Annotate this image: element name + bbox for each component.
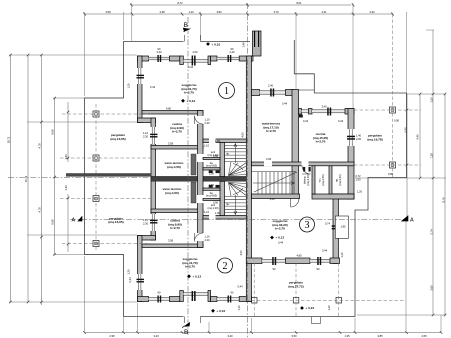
room label vano tecnico unit2 [163, 187, 182, 195]
pergola post bottom 1 [252, 298, 258, 304]
pergola axis left vertical [95, 104, 97, 250]
terrace line top right of door [201, 41, 251, 43]
svg-text:h=2,70: h=2,70 [184, 91, 194, 95]
svg-text:4,80: 4,80 [296, 254, 302, 258]
svg-text:2,40: 2,40 [268, 84, 274, 88]
svg-text:h=2,70: h=2,70 [185, 265, 195, 269]
svg-text:2,65: 2,65 [421, 334, 427, 338]
svg-text:1,20: 1,20 [237, 305, 241, 311]
svg-text:4,80: 4,80 [166, 107, 172, 111]
svg-text:(mq.2,50): (mq.2,50) [321, 174, 325, 185]
unit1 top wall corner right [239, 56, 253, 61]
unit1 top wall segment [169, 56, 179, 61]
level mark unit3 [270, 236, 284, 240]
svg-text:+ 0,10: + 0,10 [306, 306, 315, 310]
level mark bottom entry [211, 309, 225, 313]
svg-text:18,72: 18,72 [6, 136, 10, 143]
svg-text:4,78: 4,78 [37, 143, 41, 149]
window mark right wall [347, 136, 355, 140]
unit1 top wall corner left [138, 56, 149, 61]
bump right wall [198, 111, 204, 248]
bump left door2 [151, 214, 157, 231]
pergola axis left h1 [62, 113, 151, 115]
svg-text:2,00: 2,00 [192, 50, 198, 54]
left extension horizontals [9, 54, 137, 56]
dim stack door bump2 [143, 218, 149, 225]
window dim 90 top1 [156, 47, 162, 54]
door marks unit1 block [209, 171, 220, 174]
stair unit2 treads [225, 197, 247, 213]
left dim line 2 [27, 55, 29, 302]
unit1 top wall segment2 [211, 56, 217, 61]
pergola post left 3 [93, 196, 99, 202]
stair block bottom wall [203, 215, 246, 220]
cucina3 top wall left [299, 109, 302, 115]
svg-text:h=2,70: h=2,70 [172, 130, 182, 134]
right dim line x420 [419, 94, 421, 178]
room label vano tecnico unit1 [165, 161, 184, 169]
svg-text:6,08: 6,08 [51, 219, 55, 225]
svg-text:h=2,70: h=2,70 [170, 226, 180, 230]
svg-text:B: B [184, 329, 188, 336]
bump left wall [151, 118, 156, 240]
svg-text:3,50: 3,50 [291, 334, 297, 338]
door marks unit2 block [209, 185, 220, 188]
svg-text:0,90: 0,90 [213, 200, 219, 204]
bottom terrace step notch [312, 317, 321, 324]
autorimessa right wall [292, 90, 299, 196]
bath partition unit2b [203, 188, 220, 190]
svg-text:1,10: 1,10 [204, 210, 210, 214]
boiler vano1 [191, 154, 196, 175]
svg-text:0,44: 0,44 [303, 119, 309, 123]
svg-text:6,08: 6,08 [51, 129, 55, 135]
svg-text:2,95: 2,95 [109, 334, 115, 338]
top sub dimension line [84, 13, 393, 15]
pergola axis bottom v2 [295, 263, 297, 317]
chimney stack top [253, 31, 262, 56]
right extension horizontals [406, 93, 446, 95]
unit3 step wall [333, 194, 354, 199]
svg-text:+ 0,10: + 0,10 [217, 309, 226, 313]
svg-text:0,90: 0,90 [394, 119, 400, 123]
stair inner wall unit1 [220, 143, 225, 177]
unit1 step wall [138, 118, 156, 123]
svg-text:1,10: 1,10 [204, 144, 210, 148]
cucina1 top wall [142, 111, 203, 115]
unit circle 2 [218, 258, 233, 273]
pergola axis right h2 [354, 164, 421, 166]
soggiorno3 bottom wall seg1 [246, 258, 262, 264]
svg-text:rip.: rip. [226, 152, 230, 156]
unit2 left wall window [137, 274, 143, 290]
svg-text:(mq.13,65): (mq.13,65) [108, 220, 123, 224]
svg-text:1,40: 1,40 [64, 154, 68, 160]
unit1 left wall upper [138, 56, 143, 123]
svg-text:0,90: 0,90 [213, 154, 219, 158]
top dim ticks row2 [83, 13, 394, 16]
level mark unit1 [181, 99, 195, 103]
pergola axis left h2 [60, 157, 151, 159]
partition vano2/cucina2 [151, 209, 203, 213]
svg-text:(mq.4,10): (mq.4,10) [306, 174, 310, 185]
door mark bump1 [150, 134, 158, 138]
right dim line x445 [444, 94, 446, 315]
svg-text:1,35: 1,35 [344, 334, 350, 338]
svg-text:0,44: 0,44 [128, 277, 132, 283]
svg-text:2,30: 2,30 [143, 134, 149, 138]
room label soggiorno unit1 [181, 83, 196, 95]
stair unit3 cut line [254, 172, 297, 192]
svg-text:4,78: 4,78 [37, 207, 41, 213]
svg-text:B: B [184, 22, 188, 29]
svg-text:4,50: 4,50 [239, 250, 243, 256]
right dim line x407 [406, 94, 408, 218]
svg-text:1,20: 1,20 [127, 269, 131, 275]
svg-text:A: A [410, 217, 414, 223]
section letter B bottom [182, 322, 190, 336]
right dim ticks [406, 93, 447, 317]
top overall dimension line [131, 4, 351, 6]
autorimessa top wall right [286, 90, 295, 96]
unit1 top wall window1 [149, 57, 170, 60]
left dim ticks [9, 54, 69, 304]
dim stack right wall window [356, 134, 362, 142]
svg-text:1,40: 1,40 [188, 10, 194, 14]
svg-text:1,90: 1,90 [215, 139, 221, 143]
garage door [260, 91, 286, 94]
svg-text:1,50: 1,50 [209, 172, 215, 176]
soggiorno3 right wall [333, 194, 338, 264]
svg-text:3,36: 3,36 [266, 157, 272, 161]
unit2 bottom wall segment2 [211, 297, 217, 302]
fireplace bump [335, 216, 348, 238]
unit2 bottom wall window2 [217, 298, 239, 301]
room label cucina unit3 [313, 132, 328, 144]
LAYER: stairs [225, 144, 298, 215]
soggiorno3 bottom window2 [310, 259, 330, 262]
right dim line x433 [432, 30, 434, 315]
svg-text:0,44: 0,44 [282, 101, 288, 105]
svg-text:1,10: 1,10 [205, 118, 211, 122]
cucina2 bottom wall [142, 244, 203, 248]
svg-text:15,72: 15,72 [24, 175, 28, 182]
left dim line 4 [54, 98, 56, 255]
cucina3 top wall right [345, 109, 354, 115]
garden boundary wall between pergolas [66, 173, 151, 176]
stair unit3 treads [258, 172, 294, 194]
svg-text:0,44: 0,44 [188, 65, 194, 69]
svg-text:1,40: 1,40 [356, 134, 362, 138]
window mark bottom2 [228, 296, 232, 303]
pergola post right 1 [390, 107, 396, 113]
svg-text:2,20: 2,20 [205, 121, 211, 125]
level mark pergola bottom [300, 306, 314, 310]
section line B-B vertical [187, 17, 189, 335]
svg-text:+ 0,12: + 0,12 [193, 275, 202, 279]
pergola axis bottom v3 [338, 263, 340, 317]
stair unit3 axis arrow [253, 182, 295, 185]
door mark bump2 [150, 220, 158, 224]
bottom dim line [85, 332, 442, 334]
svg-text:2: 2 [223, 261, 228, 272]
left dim line 5a [67, 102, 69, 162]
LAYER: walls [66, 31, 355, 303]
small room partition B [303, 166, 332, 194]
pergola post left 2 [93, 155, 99, 161]
terrace door stubs top [185, 35, 201, 42]
svg-text:1,50: 1,50 [356, 177, 362, 181]
svg-text:0,44: 0,44 [338, 119, 344, 123]
svg-text:h=2,70: h=2,70 [316, 140, 326, 144]
door arc cucina2 [195, 233, 204, 242]
bump left door1 [151, 127, 157, 144]
svg-text:3,58: 3,58 [168, 142, 174, 146]
stair unit3 rail line [252, 171, 297, 173]
bath partition unit1 [203, 158, 220, 160]
unit2 bottom bay window [183, 293, 208, 296]
unit3 right wall upper [348, 109, 354, 200]
unit2 left wall lower [138, 236, 143, 302]
window dim 90 top2 [229, 47, 235, 54]
window dim sog3 b2 [317, 267, 320, 271]
tiny dims cucina1 door [205, 118, 211, 125]
unit2 bottom wall window1 [149, 298, 170, 301]
svg-text:4,60: 4,60 [241, 132, 245, 138]
soggiorno3 right window [332, 225, 339, 229]
level mark top entry [206, 42, 220, 46]
bath partition unit1b [203, 168, 220, 170]
svg-text:(mq.27,72): (mq.27,72) [288, 285, 303, 289]
pergola axis bottom v1 [253, 263, 255, 317]
svg-text:3,20: 3,20 [227, 334, 233, 338]
right terrace outline [294, 40, 406, 317]
small labels bath unit1 [206, 150, 219, 176]
svg-text:0,44: 0,44 [278, 241, 284, 245]
svg-text:(mq.4,60): (mq.4,60) [206, 194, 217, 198]
svg-text:(mq.4,50): (mq.4,50) [165, 191, 179, 195]
window mark garage [270, 89, 274, 97]
window dim 90 bottom1 [158, 291, 161, 295]
svg-text:1,20: 1,20 [340, 252, 344, 258]
door arc cucina1 [195, 116, 204, 125]
svg-text:2,20: 2,20 [229, 50, 235, 54]
section line A-A horizontal [70, 219, 406, 221]
window mark sog3 bottom2 [317, 257, 321, 265]
left dim line 1 [9, 55, 11, 302]
bottom dim ticks [83, 331, 442, 334]
pergola post bottom 2 [293, 298, 299, 304]
terrace door stubs bottom [185, 317, 201, 324]
cucina3 top window [312, 110, 345, 113]
bath partition unit2 [203, 199, 220, 201]
dark central spine wall [151, 176, 246, 181]
svg-text:3,30: 3,30 [369, 10, 375, 14]
room label autorimessa [262, 122, 281, 134]
unit2 step wall [138, 236, 156, 241]
autorimessa top wall left [252, 90, 260, 96]
level mark unit2 [187, 274, 201, 278]
unit circle 1 [219, 83, 235, 99]
svg-text:(mq.19,78): (mq.19,78) [367, 138, 382, 142]
unit1 top wall window2 [217, 57, 239, 60]
window mark cucina3 top [327, 108, 331, 116]
svg-text:3,83: 3,83 [216, 10, 222, 14]
unit circle 3 [300, 217, 315, 232]
room label pergolato left1 [110, 133, 125, 141]
stair unit1 axis arrow [234, 144, 237, 164]
unit1 top bay left pier [180, 56, 184, 65]
terrace line bottom right of door [201, 316, 356, 318]
unit1 top bay right pier [208, 56, 211, 65]
LAYER: terrace outlines [85, 35, 407, 324]
pergola post bottom 3 [336, 298, 342, 304]
svg-text:1: 1 [224, 86, 229, 97]
svg-text:3,58: 3,58 [168, 239, 174, 243]
door arc soggiorno3 [291, 199, 300, 208]
section letter A left [72, 216, 83, 224]
unit2 bottom bay left pier [180, 291, 184, 302]
svg-text:0,44: 0,44 [238, 285, 244, 289]
svg-text:1,20: 1,20 [327, 305, 331, 311]
unit2 bottom bay right pier [208, 291, 211, 302]
left dim line 3 [40, 55, 42, 305]
svg-text:1,49: 1,49 [241, 42, 245, 48]
room label cucina unit1 [170, 122, 184, 134]
svg-text:h=2,70: h=2,70 [275, 227, 285, 231]
dim stack door bump1 [143, 131, 149, 138]
svg-text:1,10: 1,10 [143, 218, 149, 222]
svg-text:(mq.13,65): (mq.13,65) [110, 137, 125, 141]
left dim line 5b [67, 194, 69, 252]
tiny dims cucina2 door [205, 235, 211, 242]
stair block top wall [203, 139, 246, 144]
room label pergolato left2 [108, 216, 123, 224]
room label soggiorno unit3 [272, 219, 287, 231]
svg-text:+ 0,12: + 0,12 [276, 236, 285, 240]
svg-text:3,20: 3,20 [269, 197, 275, 201]
pergola axis left h4 [62, 243, 151, 245]
window mark left wall1 [137, 75, 145, 79]
svg-text:+ 0,12: + 0,12 [187, 99, 196, 103]
bottom extension verticals [84, 256, 86, 333]
unit1 left wall window [137, 68, 143, 84]
svg-text:0,44: 0,44 [322, 249, 328, 253]
svg-text:3,40: 3,40 [321, 105, 327, 109]
LAYER: labels [72, 22, 415, 336]
svg-text:1,90: 1,90 [215, 211, 221, 215]
window mark top1 [157, 55, 161, 62]
top extension verticals [84, 12, 86, 96]
party wall center [246, 56, 251, 302]
pergola axis right vertical [392, 14, 394, 178]
window mark bottom bay [192, 291, 196, 301]
soggiorno3 bottom wall seg2 [286, 258, 311, 264]
soggiorno3 bottom wall seg3 [330, 258, 340, 264]
tiny dims stair block unit1 [204, 139, 221, 158]
svg-text:7,28: 7,28 [429, 153, 433, 159]
stair unit1 winder fan [229, 162, 247, 176]
svg-text:8,01: 8,01 [296, 1, 302, 5]
svg-text:1,10: 1,10 [143, 131, 149, 135]
section letter A right [401, 216, 414, 224]
centre axis vertical [247, 3, 249, 338]
svg-text:3,40: 3,40 [153, 334, 159, 338]
stair unit1 treads [225, 146, 247, 162]
svg-text:3: 3 [305, 220, 310, 231]
svg-text:h=2,70: h=2,70 [266, 129, 276, 133]
svg-text:(mq.4,60): (mq.4,60) [206, 164, 217, 168]
svg-text:2,30: 2,30 [143, 221, 149, 225]
unit1 top bay window [183, 60, 208, 63]
window mark top bay [192, 56, 196, 66]
window mark top2 [228, 55, 232, 62]
svg-text:8,76: 8,76 [441, 197, 445, 203]
window mark left wall2 [137, 279, 145, 283]
right entry porch steps [299, 89, 315, 91]
svg-text:0,72: 0,72 [356, 174, 362, 178]
top dim ticks row1 [130, 4, 354, 7]
bump right wall door gaps [197, 116, 204, 241]
unit2 bottom wall segment [169, 297, 179, 302]
room label pergolato bottom [288, 281, 303, 289]
window mark bottom1 [157, 296, 161, 303]
section letter B top [183, 22, 191, 32]
soggiorno3 bottom window1 [262, 259, 286, 262]
svg-text:4,40: 4,40 [415, 134, 419, 140]
small labels bath unit2 [206, 183, 219, 210]
stair inner wall unit2 [220, 181, 225, 215]
svg-text:(mq.1,00): (mq.1,00) [207, 206, 218, 210]
svg-text:5,74: 5,74 [429, 229, 433, 235]
pergola post right 2 [390, 162, 396, 168]
svg-text:3,85: 3,85 [377, 334, 383, 338]
room label soggiorno unit2 [182, 257, 197, 269]
svg-text:+ 0,10: + 0,10 [212, 42, 221, 46]
window dim 90 bottom2 [231, 291, 234, 295]
window dim 90 top bay [192, 50, 198, 54]
pergola axis right h1 [354, 109, 421, 111]
mirror axis horizontal [8, 176, 151, 178]
stair unit2 winder fan [229, 183, 247, 197]
pergola axis bottom horizontal [246, 299, 406, 301]
svg-text:(mq.4,50): (mq.4,50) [167, 165, 181, 169]
svg-text:1,40: 1,40 [64, 185, 68, 191]
svg-text:3,70: 3,70 [273, 10, 279, 14]
pergola post left 4 [93, 241, 99, 247]
svg-text:2,00: 2,00 [356, 137, 362, 141]
svg-text:1,20: 1,20 [127, 83, 131, 89]
corridor top wall unit3 [252, 162, 355, 167]
unit3 right wall window [348, 129, 355, 146]
room label pergolato right [367, 134, 382, 142]
door arc cucina3 [302, 166, 311, 175]
svg-text:1,50: 1,50 [209, 183, 215, 187]
svg-text:2,20: 2,20 [156, 50, 162, 54]
svg-text:0,74: 0,74 [325, 222, 331, 226]
window dim sog3 b1 [273, 267, 276, 271]
svg-text:3,58: 3,58 [105, 10, 111, 14]
svg-text:rip.: rip. [226, 202, 230, 206]
partition cucina1/vano1 [151, 146, 203, 150]
small room partition A [312, 166, 315, 194]
svg-text:(mq.3,00): (mq.3,00) [338, 174, 342, 185]
room label cucina unit2 [168, 219, 182, 231]
svg-text:4,31: 4,31 [321, 10, 327, 14]
left terrace outline top [85, 42, 184, 317]
svg-text:A: A [72, 217, 76, 223]
svg-text:3,38: 3,38 [159, 10, 165, 14]
